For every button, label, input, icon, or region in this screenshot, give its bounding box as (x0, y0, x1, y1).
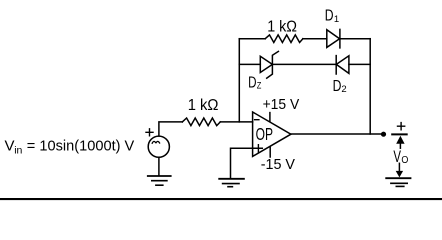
svg-text:1 kΩ: 1 kΩ (267, 18, 297, 35)
ground (output) (386, 177, 410, 179)
op-amp U1 (253, 112, 291, 156)
diode D1 (327, 30, 340, 48)
wire: D1 to top-right corner (340, 38, 370, 40)
svg-text:1 kΩ: 1 kΩ (188, 97, 219, 114)
Vo up arrowhead (396, 136, 404, 144)
svg-text:D: D (325, 8, 334, 25)
svg-text:in: in (14, 145, 22, 157)
ground (op-amp non-inverting) (219, 178, 244, 180)
svg-text:= 10sin(1000t) V: = 10sin(1000t) V (27, 138, 135, 155)
wire: source top to input resistor (159, 122, 182, 136)
wire: source bottom to ground (158, 157, 160, 175)
wire: top branch left (239, 38, 265, 40)
plus sign at source (146, 129, 153, 136)
svg-text:V: V (5, 138, 15, 155)
sine mark in source (152, 141, 159, 143)
op-amp plus input marker (257, 145, 259, 152)
svg-text:+15 V: +15 V (263, 96, 300, 113)
Vo down arrowhead (396, 171, 403, 178)
diode D2 (336, 56, 349, 74)
resistor R2 (feedback 1 kΩ) (265, 35, 303, 43)
voltage source V1 (148, 136, 169, 157)
svg-text:OP: OP (256, 124, 273, 144)
wire: DZ to D2 (272, 63, 336, 65)
Vo down arrow tail (398, 163, 400, 171)
wire: resistor to D1 (303, 38, 327, 40)
wire: resistor to op-amp inverting input (220, 121, 252, 123)
op-amp -15V supply stub (269, 147, 271, 157)
wire: middle branch left (239, 63, 260, 65)
svg-text:Z: Z (257, 80, 262, 91)
op-amp minus input marker (255, 119, 259, 121)
wire: op-amp output (291, 133, 381, 135)
svg-text:-15 V: -15 V (261, 156, 295, 173)
zener diode DZ (260, 56, 272, 72)
ground (source) (148, 175, 171, 177)
svg-text:V: V (393, 147, 401, 166)
bottom rule (0, 198, 442, 200)
wire: D2 to right vertical (349, 63, 370, 65)
svg-text:D: D (333, 78, 342, 95)
svg-text:1: 1 (334, 14, 339, 25)
op-amp +15V supply stub (269, 113, 271, 122)
wire: feedback left vertical (238, 39, 240, 122)
node: output junction dot (381, 132, 386, 137)
resistor R1 (input 1 kΩ) (182, 118, 220, 126)
output terminal bar (392, 133, 407, 135)
svg-text:D: D (248, 75, 256, 92)
Vo up arrow tail (399, 143, 401, 149)
plus sign at output (398, 123, 405, 130)
svg-text:2: 2 (341, 84, 346, 95)
wire: non-inverting input to ground (231, 148, 263, 178)
wire: feedback right vertical (369, 39, 371, 134)
svg-text:O: O (401, 154, 408, 166)
